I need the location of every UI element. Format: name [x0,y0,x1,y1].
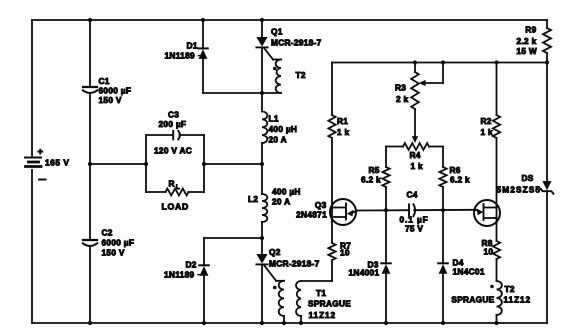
svg-text:R3: R3 [395,83,406,93]
svg-text:6.2 k: 6.2 k [450,175,470,185]
svg-text:R1: R1 [337,116,348,126]
svg-text:DS: DS [522,173,534,183]
svg-text:1N4001: 1N4001 [349,268,380,278]
svg-text:1 k: 1 k [337,127,350,137]
svg-text:1N4C01: 1N4C01 [453,267,485,277]
svg-text:MCR-2918-7: MCR-2918-7 [271,38,322,48]
svg-text:R: R [169,179,175,189]
svg-text:L2: L2 [248,194,258,204]
svg-text:165 V: 165 V [45,158,69,168]
svg-text:D1: D1 [187,41,198,51]
svg-text:T2: T2 [296,70,306,80]
svg-text:15 W: 15 W [516,46,537,56]
svg-text:150 V: 150 V [99,95,122,105]
svg-text:2N4871: 2N4871 [296,210,327,220]
svg-text:5M2SZS5: 5M2SZS5 [497,185,542,195]
svg-text:75 V: 75 V [405,224,423,234]
svg-text:6000 µF: 6000 µF [102,238,135,248]
svg-text:1N1189: 1N1189 [165,51,195,61]
svg-text:150 V: 150 V [102,248,125,258]
svg-text:LOAD: LOAD [162,202,189,212]
svg-text:SPRAGUE: SPRAGUE [308,299,351,309]
svg-text:20 A: 20 A [272,197,290,207]
svg-text:C2: C2 [102,228,113,238]
svg-text:D2: D2 [186,260,197,270]
svg-text:T1: T1 [316,288,326,298]
svg-text:20 A: 20 A [269,135,287,145]
svg-text:200 µF: 200 µF [159,119,187,129]
svg-text:R4: R4 [410,150,421,160]
svg-text:R6: R6 [450,165,461,175]
svg-text:1 k: 1 k [481,127,494,137]
svg-text:L1: L1 [269,114,279,124]
svg-text:1 k: 1 k [411,161,424,171]
svg-text:2.2 k: 2.2 k [517,36,537,46]
svg-text:2 k: 2 k [396,94,409,104]
svg-text:R2: R2 [481,116,492,126]
svg-text:11Z12: 11Z12 [309,310,337,320]
svg-text:C4: C4 [407,190,418,200]
svg-text:R5: R5 [369,165,380,175]
svg-text:1N1189: 1N1189 [164,270,194,280]
svg-text:400 µH: 400 µH [269,124,298,134]
svg-text:T2: T2 [505,284,515,294]
svg-text:MCR-2918-7: MCR-2918-7 [269,259,320,269]
svg-text:R9: R9 [525,25,536,35]
svg-text:C1: C1 [99,76,110,86]
svg-text:11Z12: 11Z12 [504,295,532,305]
svg-text:120 V AC: 120 V AC [154,146,192,156]
svg-text:400 µH: 400 µH [272,187,301,197]
svg-text:Q2: Q2 [269,247,281,257]
svg-text:6.2 k: 6.2 k [361,175,381,185]
svg-text:Q3: Q3 [315,200,327,210]
svg-text:Q1: Q1 [271,27,283,37]
svg-text:SPRAGUE: SPRAGUE [451,295,494,305]
svg-text:L: L [176,184,180,191]
svg-text:6000 µF: 6000 µF [99,86,132,96]
svg-text:+: + [38,147,44,158]
svg-text:10: 10 [340,248,350,258]
svg-text:10: 10 [484,247,494,257]
svg-text:C3: C3 [168,110,179,120]
